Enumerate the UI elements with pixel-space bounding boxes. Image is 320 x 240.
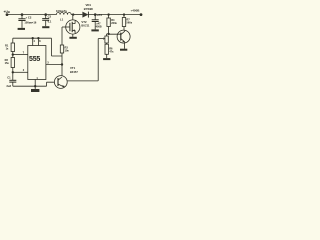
node +400V terminal [140, 13, 143, 16]
resistor R4 [107, 13, 118, 34]
svg-text:100мкГн: 100мкГн [56, 9, 67, 13]
ground (C3) [42, 26, 49, 28]
transistor VT3 [117, 30, 130, 49]
node pin1 junction [34, 85, 36, 87]
capacitor C1 [6, 72, 16, 88]
svg-text:BYW98: BYW98 [84, 7, 93, 11]
svg-text:C1: C1 [7, 76, 11, 80]
svg-text:VD1: VD1 [86, 3, 92, 7]
transistor VT2 (MOSFET) [62, 15, 90, 37]
node VT2 drain tap [72, 13, 74, 15]
svg-text:400В: 400В [96, 25, 102, 28]
wire pin4 drop [32, 38, 34, 45]
wire VT1 emitter feedback to R5 wiper [67, 39, 98, 81]
wire top rail left [7, 14, 57, 16]
wire pin 2 [13, 71, 28, 73]
svg-text:3н3: 3н3 [6, 84, 11, 88]
inductor L1 [56, 9, 71, 21]
svg-text:+ C2: + C2 [26, 15, 32, 19]
capacitor C2 [18, 13, 37, 28]
op-amp U1: 555 IC box [28, 46, 46, 80]
node R1/R2 junction pin7 [12, 53, 14, 55]
wire VT1 collector [61, 65, 63, 76]
ground (R6) [103, 58, 110, 60]
svg-text:10к: 10к [65, 49, 70, 53]
wire rail diode to end [88, 14, 141, 16]
resistor R6 [105, 44, 114, 58]
transistor VT1 [47, 66, 79, 89]
node pin8 tap [37, 37, 39, 39]
wire pin 3 output [46, 64, 62, 66]
svg-text:VT1: VT1 [70, 66, 76, 70]
wire pin 1 drop [34, 80, 36, 90]
wire pin8 drop [37, 38, 39, 45]
ground (C2) [18, 28, 25, 30]
svg-text:VT2: VT2 [81, 20, 87, 24]
svg-text:BUZ11: BUZ11 [81, 24, 90, 28]
resistor R7 [122, 13, 132, 30]
svg-text:555: 555 [29, 56, 40, 63]
svg-text:220к: 220к [111, 21, 117, 25]
wire ground bus bottom [13, 85, 47, 87]
wire VT3 base [107, 33, 121, 35]
svg-text:15к: 15к [5, 61, 10, 65]
resistor R5 (trimmer) [98, 34, 108, 44]
ground (555 pin1) [31, 89, 39, 92]
node pin4 tap [32, 37, 34, 39]
svg-text:560к: 560к [126, 20, 132, 24]
node +UB terminal [6, 13, 9, 16]
capacitor C4 [92, 13, 103, 30]
svg-text:0,1: 0,1 [48, 20, 52, 24]
node output junction [61, 63, 63, 65]
capacitor C3 [42, 13, 52, 26]
wire pin 7 [13, 54, 28, 56]
svg-text:+400В: +400В [131, 8, 141, 12]
resistor R2 [5, 55, 15, 73]
node R2/C1 junction pin2 [12, 71, 14, 73]
svg-text:BF457: BF457 [70, 70, 78, 74]
wire rail L1 to diode [71, 14, 82, 16]
diode VD1 [82, 3, 93, 17]
ground (VT3) [120, 49, 127, 51]
wire gate column / R3 top [61, 27, 63, 45]
ground (VT2) [69, 37, 76, 39]
svg-text:47к: 47к [109, 50, 114, 54]
svg-text:L1: L1 [60, 17, 64, 21]
resistor R1 [5, 38, 15, 54]
svg-text:+C4: +C4 [97, 13, 103, 17]
node R4/R5/VT3-base junction [107, 33, 109, 35]
svg-text:100мк×16: 100мк×16 [24, 21, 37, 25]
svg-text:C3: C3 [48, 15, 52, 19]
ground (C4) [91, 29, 98, 31]
wire 555 supply feed (pins 4,8) [13, 38, 62, 56]
resistor R3 [60, 45, 69, 65]
svg-text:+UB: +UB [4, 10, 10, 14]
